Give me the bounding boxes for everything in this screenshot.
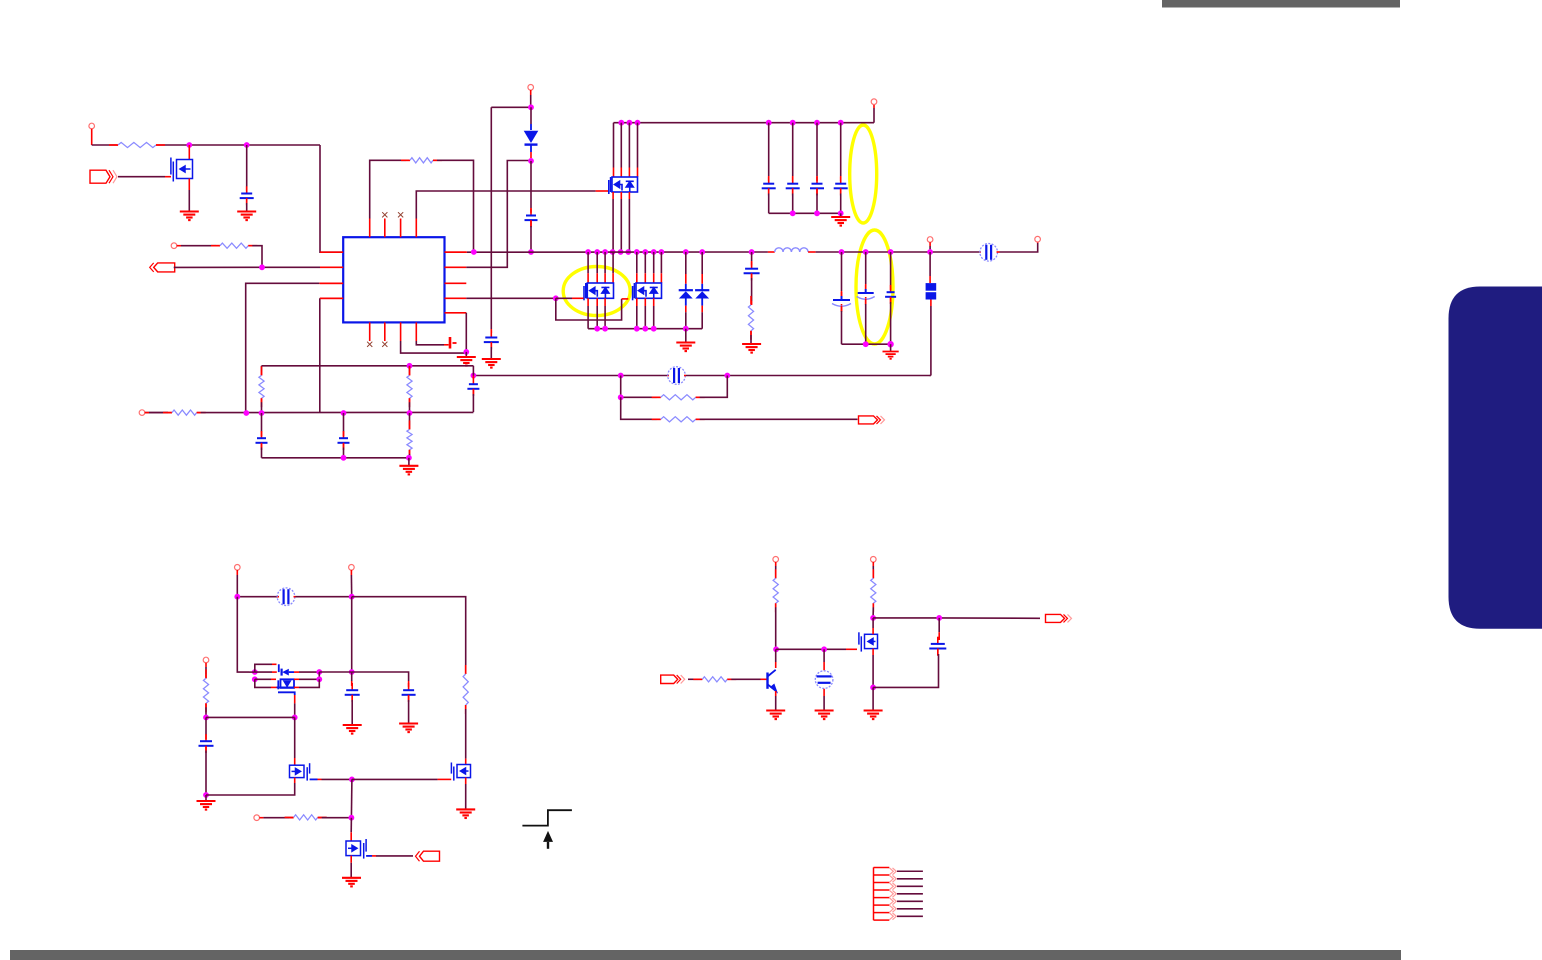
node J5 bbox=[528, 104, 534, 110]
terminal P6 (feedback in) bbox=[139, 410, 145, 416]
connector A6 (input) and resistor R9 to Q9 base bbox=[661, 675, 678, 683]
Q5 gate lead bbox=[278, 692, 295, 695]
transistor Q1 (MOSFET top-left) bbox=[188, 145, 190, 159]
capacitor C2 bbox=[530, 161, 532, 208]
feedback top line y=365.8 bbox=[262, 365, 474, 367]
page furniture: bottom gray bar bbox=[10, 950, 1401, 960]
IC U1 (PWM controller) bbox=[343, 237, 444, 322]
wire pack out to C12 node bbox=[319, 671, 351, 673]
wire T1 line right to Q6 drain bbox=[352, 597, 466, 670]
ground below C15 bbox=[205, 795, 207, 801]
connector A3 (sense output) bbox=[859, 416, 878, 424]
gate drive net to Q3/Q4 gates bbox=[466, 297, 556, 299]
node J24 bbox=[252, 676, 258, 682]
connector A1 (input arrow) bbox=[90, 170, 110, 183]
fuse F1 (blue body) bbox=[926, 283, 937, 291]
node J16 bbox=[341, 410, 347, 416]
node J11 bbox=[724, 373, 730, 379]
Q7 out wire right bbox=[310, 778, 318, 780]
node on low bus bbox=[683, 326, 689, 332]
wire to C3 branch bbox=[491, 106, 531, 108]
output cap C10 (polarized, in ellipse) bbox=[863, 249, 869, 255]
wire bootstrap cap branch x491 bbox=[490, 107, 492, 329]
page furniture: top-right gray bar bbox=[1162, 0, 1400, 8]
highlight ellipse (yellow) around input cap bank bbox=[850, 125, 877, 223]
connector A2 (input arrow) bbox=[154, 263, 158, 272]
diode D3 (schottky pair right) bbox=[699, 249, 705, 255]
resistor R1 bbox=[114, 144, 118, 146]
node J3 bbox=[259, 264, 265, 270]
ground below C13 bbox=[399, 724, 418, 733]
up arrow annotation (black) bbox=[543, 831, 553, 842]
terminal P9 and RV5 branch bbox=[203, 657, 209, 663]
ground below C12 bbox=[343, 725, 362, 734]
IC U1 bottom pin stubs bbox=[369, 322, 371, 341]
wire bus to Q2 pin2 bbox=[618, 120, 624, 126]
diode D4 (pack diode) bbox=[249, 671, 255, 673]
wire IC pin4 left down to feedback line bbox=[320, 297, 343, 299]
snubber branch: capacitor C8 bbox=[749, 249, 755, 255]
IC U1 left pin stubs bbox=[320, 251, 343, 253]
terminal P10 and resistor R8 bbox=[254, 815, 260, 821]
node J35 bbox=[870, 685, 876, 691]
wire J33 into Q10 drain bbox=[872, 618, 874, 628]
terminal P4 (VOUT) bbox=[1035, 236, 1041, 242]
inductor L1 bbox=[768, 251, 775, 253]
wire output rail to terminal bbox=[1000, 243, 1038, 252]
terminal P5 (VIN) bbox=[871, 99, 877, 105]
Q10 source down bbox=[872, 649, 874, 655]
ground at IC bottom bbox=[457, 357, 476, 366]
Q4 source pins to low bus bbox=[636, 298, 638, 306]
ground below Q10 bbox=[864, 711, 883, 720]
node J12 bbox=[618, 394, 624, 400]
wire R2 to node J3 bbox=[252, 246, 262, 268]
node J34 bbox=[821, 646, 827, 652]
transistor Q9 (BJT) bbox=[775, 649, 777, 662]
wire fuse down to current-sense line bbox=[930, 306, 932, 376]
capacitor C4 bank column1 bbox=[766, 120, 772, 126]
resistor R3 bbox=[406, 159, 410, 161]
capacitor C14 branch bbox=[938, 618, 940, 632]
transistor Q6 (MOSFET right) bbox=[451, 763, 470, 781]
node J29 bbox=[203, 792, 209, 798]
capacitor C1 bbox=[246, 145, 248, 187]
node J33 bbox=[870, 615, 876, 621]
node J17 bbox=[407, 410, 413, 416]
terminal P8 bbox=[349, 565, 355, 571]
capacitor C15 bbox=[205, 717, 207, 735]
transformer T1 (dashed circle) bbox=[277, 596, 279, 598]
wire bus to Q2 pin4 bbox=[635, 120, 641, 126]
node J8 on rail bbox=[471, 249, 477, 255]
wire P8 branch down to bypass cap C12 bbox=[351, 597, 353, 672]
step waveform annotation (black) bbox=[522, 810, 572, 825]
node J19 bbox=[406, 455, 412, 461]
resistor R2 bbox=[216, 245, 220, 247]
transistor Q5 (pack MOSFET) bbox=[255, 678, 271, 680]
ground below Q1 bbox=[180, 212, 199, 221]
filter F2 (feedthrough cap) on output rail bbox=[980, 251, 982, 253]
node J6 bbox=[528, 158, 534, 164]
wire J31 to Q8 bbox=[350, 818, 352, 833]
wire bus corner to Q2 pin1 bbox=[613, 123, 615, 168]
wire J28 down to Q7 drain bbox=[294, 717, 296, 758]
node J23 bbox=[252, 669, 258, 675]
connector A4 (output arrow) bbox=[1046, 614, 1065, 622]
ground below output caps bbox=[890, 344, 892, 351]
fuse F1 branch bbox=[927, 237, 933, 243]
transistor Q4 (sync MOSFET pair B) bbox=[633, 283, 662, 300]
wire A2 to IC pin EN bbox=[174, 266, 320, 268]
no-connect X marks top pins bbox=[382, 212, 387, 217]
cap bank bottom bus bbox=[769, 212, 841, 214]
node J1 bbox=[186, 142, 192, 148]
wire R3 to rail at x473 bbox=[437, 160, 474, 252]
transistor Q3 (sync MOSFET pair A) bbox=[584, 283, 614, 300]
resistor RV1 (divider) bbox=[261, 366, 263, 372]
wire bus right end up to terminal P5 bbox=[873, 108, 875, 123]
capacitor C12 bbox=[351, 672, 353, 681]
terminal P2 (enable) bbox=[171, 243, 177, 249]
node J25 bbox=[316, 669, 322, 675]
wire low bus to ground bbox=[685, 329, 687, 342]
input bus top horizontal bbox=[614, 122, 875, 124]
node J18 bbox=[341, 455, 347, 461]
node J32 bbox=[773, 646, 779, 652]
wire net VIN1 top-left horizontal bbox=[92, 144, 114, 146]
probe symbol TP1 (red) bbox=[450, 337, 457, 349]
node J31 bbox=[349, 815, 355, 821]
node J26 bbox=[316, 676, 322, 682]
snubber resistor RV4 bbox=[751, 301, 753, 305]
wire IC top pin1 to R3 to phase rail bbox=[370, 160, 406, 218]
node J22 bbox=[349, 669, 355, 675]
ground below Q8 bbox=[342, 878, 361, 887]
wire IC right pin5 down to ground node bbox=[465, 313, 467, 352]
CN1 pin chevrons bbox=[890, 868, 897, 920]
sense output resistor R7 to connector bbox=[621, 397, 657, 419]
node J20 bbox=[234, 594, 240, 600]
IC U1 right pin stubs bbox=[445, 251, 467, 253]
reference cell X1 (dashed circle) bbox=[823, 649, 825, 662]
terminal P11 bbox=[773, 557, 779, 563]
resistor RV3 bbox=[409, 413, 411, 426]
output cap C9 (polarized) bbox=[839, 249, 845, 255]
output cap C11 bbox=[888, 249, 894, 255]
ground below C3 bbox=[482, 359, 501, 368]
ground below divider bbox=[408, 458, 410, 466]
wire Q2 pin1 through rail to Q3 pin4 bbox=[612, 252, 614, 273]
wires rail to Q3 top pins bbox=[585, 249, 591, 255]
node J28 bbox=[292, 715, 298, 721]
CN1 pin wires bbox=[897, 870, 923, 872]
capacitor C13 bbox=[408, 681, 410, 687]
resistor RV8 bbox=[465, 670, 467, 674]
no-connect X marks bottom pins bbox=[367, 342, 372, 347]
page furniture: navy side tab bbox=[1449, 287, 1542, 629]
pack bottom loop bbox=[255, 679, 271, 687]
wire bus to Q2 pin3 bbox=[627, 120, 633, 126]
wire R5 to network bbox=[201, 411, 474, 413]
wire IC top pin4 gate drive to Q2 bbox=[416, 191, 595, 219]
wire pack line to capacitor C13 bbox=[352, 672, 409, 681]
wire J27-J28 bbox=[206, 716, 295, 718]
resistor RV7 bbox=[872, 574, 874, 578]
wire VIN1 down to IC pin bbox=[320, 145, 343, 252]
phase rail dots at Q2 pins bbox=[610, 249, 616, 255]
wire J33 to output connector A4 bbox=[873, 617, 935, 619]
ground below C1 bbox=[237, 212, 256, 221]
wire A1 to Q1 gate bbox=[118, 176, 165, 178]
phase rail (switch node) horizontal bbox=[445, 251, 467, 253]
terminal P1 top-left bbox=[89, 123, 95, 129]
Q9 emitter to ground bbox=[775, 691, 777, 696]
feedback bottom bus bbox=[262, 457, 409, 459]
wires rail to Q4 top pins bbox=[634, 249, 640, 255]
terminal P12 bbox=[871, 557, 877, 563]
Q7 source loop to J29 bbox=[294, 778, 296, 783]
bus Q9 collector to Q10 gate bbox=[776, 648, 846, 650]
node J13 bbox=[407, 363, 413, 369]
resistor RV2 bbox=[409, 366, 411, 372]
low-side source bus bbox=[588, 328, 702, 330]
node J10 bbox=[618, 373, 624, 379]
node J21 bbox=[349, 594, 355, 600]
parallel resistor R6 loop bbox=[620, 376, 622, 398]
transistor Q7 (MOSFET mid-left) bbox=[290, 763, 310, 780]
capacitor C3 bbox=[490, 330, 492, 337]
Q3 source pins to low bus bbox=[587, 298, 589, 306]
node J9 bbox=[471, 373, 477, 379]
transistor Q2 (high-side MOSFET) bbox=[609, 177, 638, 194]
diode D1 bbox=[530, 107, 532, 124]
capacitor C7 bank column4 bbox=[838, 120, 844, 126]
node J4 bbox=[463, 349, 469, 355]
Q8 output wire to connector A5 bbox=[366, 855, 372, 857]
ground below X1 bbox=[815, 711, 834, 720]
resistor RV5 bbox=[205, 674, 207, 678]
Q8 source to ground bbox=[350, 856, 352, 863]
resistor R5 bbox=[168, 412, 172, 414]
transistor Q10 (MOSFET) bbox=[859, 632, 878, 651]
terminal P3 (VCC) bbox=[528, 85, 534, 91]
capacitor C5b lower left bbox=[261, 413, 263, 432]
node J7 on rail bbox=[528, 249, 534, 255]
connector A5 (enable output, left arrow) bbox=[420, 851, 424, 861]
ground below snubber bbox=[742, 344, 761, 353]
transistor Q8 (MOSFET bottom) bbox=[346, 839, 366, 859]
resistor RV6 bbox=[775, 574, 777, 578]
wire IC bottom pin3 to ground node bbox=[401, 341, 467, 353]
output caps bottom bus bbox=[842, 343, 891, 345]
wire IC bottom pin4 to probe bbox=[416, 341, 444, 345]
terminal P7 bbox=[235, 565, 241, 571]
IC U1 top pin stubs bbox=[369, 219, 371, 238]
wire P2 to R2 bbox=[181, 245, 216, 247]
current sense line bbox=[473, 375, 667, 377]
connector CN1 (8-pin header) bbox=[874, 867, 890, 920]
Q2 source pins down to phase rail bbox=[612, 192, 614, 199]
node J30 bbox=[349, 777, 355, 783]
highlight ellipse (yellow) around sync MOSFET pair Q_low bbox=[563, 267, 630, 316]
output rail after L1 bbox=[816, 251, 980, 253]
wire J30 to Q6 gate bbox=[352, 778, 438, 780]
wire J30 down to R8 node bbox=[350, 779, 353, 817]
feedback mid line y=413 bbox=[142, 412, 168, 414]
node J15 bbox=[259, 410, 265, 416]
capacitor C16 at x473 bbox=[472, 376, 474, 380]
diode D2 (schottky pair left) bbox=[683, 249, 689, 255]
wire IC pin3 left to lower network bbox=[319, 282, 343, 284]
transformer T2 (sense element) bbox=[668, 375, 670, 377]
node J27 bbox=[203, 715, 209, 721]
wire P7 branch down to switch pack bbox=[237, 597, 249, 672]
highlight ellipse (yellow) around output caps bbox=[856, 230, 893, 344]
wire IC right pin2 to bootstrap node bbox=[466, 161, 531, 268]
node J14 bbox=[243, 410, 249, 416]
node J2 bbox=[244, 142, 250, 148]
pack bypass top loop bbox=[255, 664, 272, 672]
ground below Q6 bbox=[456, 809, 475, 818]
node J36 bbox=[936, 615, 942, 621]
capacitor C6b lower mid bbox=[343, 413, 345, 432]
capacitor C6 bank column3 bbox=[814, 120, 820, 126]
ground of low-side bus bbox=[676, 343, 695, 352]
ground below cap bank bbox=[840, 213, 842, 216]
capacitor C5 bank column2 bbox=[790, 120, 796, 126]
transformer T1 line bbox=[237, 596, 277, 598]
